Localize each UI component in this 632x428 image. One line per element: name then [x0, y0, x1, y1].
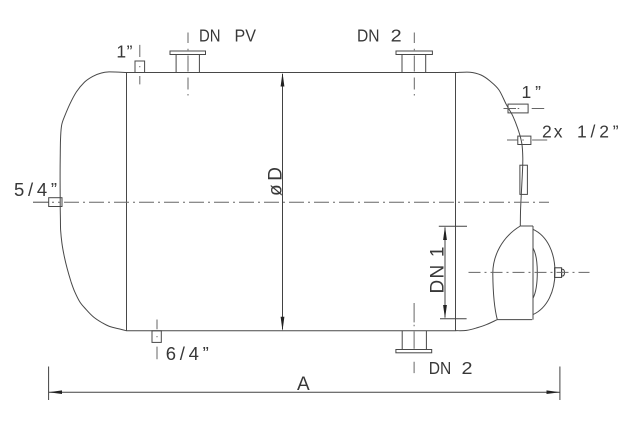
nozzle DN PV flange plate [170, 51, 206, 55]
nozzle DN 2 top neck [401, 55, 403, 73]
bracket lug on right head [520, 165, 528, 194]
centerline nozzle DN 2 bottom [413, 303, 415, 373]
dimension oD line [282, 74, 284, 330]
manway fitting cap [562, 269, 565, 276]
manway flange face line [532, 226, 534, 320]
nozzle 2x 1/2 inch right side [518, 136, 531, 144]
nozzle DN PV neck [175, 55, 177, 73]
svg-text:2: 2 [462, 358, 473, 378]
nozzle DN 2 bottom flange plate [396, 350, 432, 353]
centerline nozzle DN 2 top [413, 33, 415, 96]
centerline nozzle 6/4 bottom [156, 320, 158, 360]
svg-text:1”: 1” [116, 42, 132, 62]
dimension DN 1 extension top [439, 225, 467, 227]
nozzle 1 inch right side [508, 104, 528, 113]
nozzle 1 inch top-left square [135, 61, 145, 73]
manway dome outer arc [533, 229, 555, 314]
manway neck left arc [493, 226, 521, 320]
svg-text:DN 1: DN 1 [428, 247, 449, 294]
arrowhead A right [547, 390, 560, 394]
arrowhead DN1 up [443, 226, 447, 240]
dimension DN 1 line [444, 228, 446, 318]
nozzle 5/4 leader line [33, 201, 49, 203]
dimension A left tick [48, 367, 50, 401]
centerline nozzle 1 inch right [504, 108, 545, 110]
centerline nozzle 1 inch top-left [139, 45, 141, 85]
arrowhead oD down [281, 317, 285, 331]
vessel top shell line [127, 72, 456, 74]
svg-text:5/4”: 5/4” [14, 179, 57, 200]
svg-text:1”: 1” [522, 82, 542, 102]
right dished head upper [456, 72, 523, 226]
dimension DN 1 extension bottom [440, 318, 467, 320]
centerline nozzle DN PV [187, 33, 189, 96]
centerline nozzle half inch right [507, 139, 547, 141]
manway horizontal centerline [469, 271, 590, 273]
dimension A line [49, 391, 560, 393]
arrowhead oD up [281, 73, 285, 87]
svg-text:DN: DN [199, 26, 221, 46]
dimension A right tick [559, 367, 561, 401]
left head tangent seam [126, 73, 128, 331]
manway bottom edge [497, 319, 532, 321]
nozzle DN 2 bottom neck [401, 331, 403, 350]
svg-text:PV: PV [235, 26, 257, 46]
svg-text:2x: 2x [542, 121, 563, 141]
svg-text:2: 2 [391, 26, 402, 46]
left dished head [60, 72, 126, 331]
svg-text:DN: DN [357, 26, 380, 46]
nozzle 6/4 inch bottom square [152, 331, 161, 343]
right head tangent seam [455, 73, 457, 331]
svg-text:1/2”: 1/2” [577, 121, 619, 141]
manway top edge [520, 225, 533, 227]
right dished head lower [456, 320, 498, 331]
svg-text:DN: DN [429, 358, 452, 378]
manway fitting body [555, 268, 562, 278]
vessel bottom shell line [127, 330, 456, 332]
svg-text:A: A [297, 374, 310, 395]
svg-text:6/4”: 6/4” [166, 343, 209, 364]
main horizontal centerline [52, 201, 549, 203]
arrowhead DN1 down [443, 305, 447, 319]
svg-text:øD: øD [266, 167, 287, 196]
manway dome inner arc [533, 248, 537, 298]
nozzle DN 2 top flange plate [396, 51, 432, 55]
nozzle 5/4 inch left side [49, 198, 62, 207]
arrowhead A left [49, 390, 62, 394]
